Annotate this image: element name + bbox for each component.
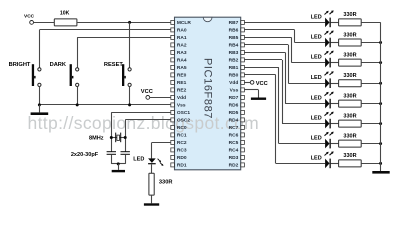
- svg-text:8MHz: 8MHz: [89, 135, 104, 141]
- wire Vss pin31 right: [244, 89, 258, 91]
- LED D8: [325, 151, 334, 168]
- junction: [76, 103, 79, 106]
- svg-text:RC4: RC4: [229, 148, 239, 154]
- svg-text:RC2: RC2: [177, 140, 187, 146]
- svg-text:RC5: RC5: [229, 140, 239, 146]
- wire RB3 down: [285, 52, 287, 103]
- LED D4: [325, 71, 334, 88]
- wire to LED row 4: [288, 83, 325, 85]
- pin 9 RE1 (left stub): [171, 80, 187, 86]
- pin 15 RC0 (left stub): [171, 125, 187, 131]
- svg-text:MCLR: MCLR: [177, 20, 191, 26]
- resistor R2 330R: [339, 39, 362, 46]
- wire Vdd pin32 to VCC: [244, 82, 250, 84]
- LED D1: [325, 10, 334, 27]
- IC U1 PIC16F887 microcontroller body: [175, 17, 241, 170]
- ground (LED rail): [372, 171, 389, 174]
- wire 330R to rail: [361, 42, 380, 44]
- wire RB1 down: [278, 67, 280, 143]
- VCC terminal (Vdd pin11): [146, 96, 150, 100]
- junction crystal left: [110, 136, 113, 139]
- junction: [128, 103, 131, 106]
- svg-text:Vss: Vss: [230, 88, 239, 94]
- junction caps: [117, 162, 120, 165]
- wire RB2 down: [282, 60, 284, 124]
- svg-text:RC0: RC0: [177, 125, 187, 131]
- pin 10 RE2 (left stub): [171, 88, 187, 94]
- svg-text:RE1: RE1: [177, 80, 187, 86]
- pin 12 Vss (left stub): [171, 103, 186, 109]
- svg-text:RD0: RD0: [177, 155, 187, 161]
- svg-text:10K: 10K: [60, 10, 70, 16]
- wire OSC1 left: [111, 112, 171, 114]
- LED D9 (center, pointing down): [148, 158, 163, 166]
- pin 2 RA0 (left stub): [171, 28, 187, 34]
- resistor R1 330R: [339, 19, 362, 26]
- common cathode rail: [380, 22, 382, 171]
- wire BRIGHT to ground rail: [39, 86, 41, 105]
- pin 13 OSC1 (left stub): [171, 110, 191, 116]
- svg-text:330R: 330R: [343, 52, 356, 58]
- wire RB2 right: [244, 59, 282, 61]
- wire: [331, 163, 339, 165]
- wire OSC2 down: [125, 120, 127, 152]
- pin 23 RC4 (right stub): [229, 148, 245, 154]
- pin 5 RA3 (left stub): [171, 50, 187, 56]
- wire OSC2 left: [125, 119, 171, 121]
- wire 330R to ground: [151, 195, 153, 203]
- ground (switch rail): [31, 112, 49, 115]
- svg-text:RD5: RD5: [229, 110, 239, 116]
- resistor R4 330R: [339, 80, 362, 87]
- wire: [331, 103, 339, 105]
- ground (oscillator): [112, 170, 125, 172]
- svg-text:LED: LED: [311, 55, 322, 61]
- wire RB4 right: [244, 44, 288, 46]
- wire C1 down: [111, 155, 113, 164]
- svg-text:RA1: RA1: [177, 35, 187, 41]
- junction rail row 6: [379, 122, 382, 125]
- wire 330R to rail: [361, 143, 380, 145]
- wire RB1 right: [244, 67, 278, 69]
- svg-text:RESET: RESET: [104, 62, 123, 68]
- junction MCLR/RESET node: [128, 21, 131, 24]
- wire LED to 330R: [151, 164, 153, 173]
- pin 37 RB4 (right stub): [229, 43, 245, 49]
- wire caps join: [111, 163, 125, 165]
- pin 7 RA5 (left stub): [171, 65, 187, 71]
- svg-text:RB1: RB1: [229, 65, 239, 71]
- wire down to RESET switch: [129, 22, 131, 68]
- svg-text:PIC16F887: PIC16F887: [202, 58, 214, 119]
- wire Vss down: [258, 90, 260, 98]
- pin 40 RB7 (right stub): [229, 20, 245, 26]
- wire 330R to rail: [361, 163, 380, 165]
- svg-text:330R: 330R: [343, 12, 356, 18]
- svg-text:RC3: RC3: [177, 148, 187, 154]
- pin 30 RD7 (right stub): [229, 95, 245, 101]
- svg-text:VCC: VCC: [141, 89, 153, 95]
- svg-text:LED: LED: [311, 116, 322, 122]
- svg-text:LED: LED: [311, 75, 322, 81]
- wire RB7 to LED row 1: [244, 22, 325, 24]
- wire to LED row 8: [276, 163, 325, 165]
- pin 26 RC7 (right stub): [229, 125, 245, 131]
- pin 35 RB2 (right stub): [229, 58, 245, 64]
- svg-text:LED: LED: [311, 155, 322, 161]
- wire: [331, 42, 339, 44]
- junction crystal right: [124, 136, 127, 139]
- svg-text:2x20-30pF: 2x20-30pF: [71, 152, 99, 158]
- pin 21 RD2 (right stub): [229, 163, 245, 169]
- pin 11 Vdd (left stub): [171, 95, 186, 101]
- pin 3 RA1 (left stub): [171, 35, 187, 41]
- pin 18 RC3 (left stub): [171, 148, 187, 154]
- svg-text:OSC1: OSC1: [177, 110, 190, 116]
- wire: [331, 123, 339, 125]
- ground rail to Vss pin12: [39, 104, 171, 106]
- pushbutton switch DARK: [70, 64, 79, 86]
- pin 33 RB0 (right stub): [229, 73, 245, 79]
- wire to LED row 7: [279, 143, 325, 145]
- svg-text:RB5: RB5: [229, 35, 239, 41]
- wire: [331, 62, 339, 64]
- svg-text:Vdd: Vdd: [229, 80, 238, 86]
- svg-text:BRIGHT: BRIGHT: [9, 62, 31, 68]
- pin 27 RD4 (right stub): [229, 118, 245, 124]
- pin 20 RD1 (left stub): [171, 163, 187, 169]
- wire C2 down: [125, 155, 127, 164]
- pin 17 RC2 (left stub): [171, 140, 187, 146]
- LED D7: [325, 132, 334, 149]
- pin 19 RD0 (left stub): [171, 155, 187, 161]
- svg-text:RB4: RB4: [229, 43, 239, 49]
- svg-text:RC1: RC1: [177, 133, 187, 139]
- pin 34 RB1 (right stub): [229, 65, 245, 71]
- wire: [331, 143, 339, 145]
- pin 22 RD3 (right stub): [229, 155, 245, 161]
- svg-text:RA0: RA0: [177, 28, 187, 34]
- svg-text:RB2: RB2: [229, 58, 239, 64]
- svg-text:RB3: RB3: [229, 50, 239, 56]
- pin 6 RA4 (left stub): [171, 58, 187, 64]
- wire to LED row 6: [282, 123, 325, 125]
- wire RC2 left: [152, 142, 171, 144]
- svg-text:RB0: RB0: [229, 73, 239, 79]
- wire RB6 down: [294, 30, 296, 43]
- pin 36 RB3 (right stub): [229, 50, 245, 56]
- pin 24 RC5 (right stub): [229, 140, 245, 146]
- svg-text:DARK: DARK: [50, 62, 67, 68]
- wire rail to ground: [39, 105, 41, 113]
- wire down to BRIGHT switch: [39, 30, 41, 68]
- resistor R5 330R: [339, 100, 362, 107]
- svg-text:RD7: RD7: [229, 95, 239, 101]
- pin 38 RB5 (right stub): [229, 35, 245, 41]
- svg-text:RD2: RD2: [229, 163, 239, 169]
- svg-text:RD4: RD4: [229, 118, 239, 124]
- resistor R10 330R (vertical): [149, 173, 154, 195]
- svg-text:RA4: RA4: [177, 58, 187, 64]
- junction rail row 4: [379, 82, 382, 85]
- svg-text:RB6: RB6: [229, 28, 239, 34]
- capacitor C2 20-30pF: [121, 151, 130, 155]
- svg-text:RB7: RB7: [229, 20, 239, 26]
- pin 29 RD6 (right stub): [229, 103, 245, 109]
- resistor R8 330R: [339, 160, 362, 167]
- svg-text:VCC: VCC: [256, 81, 268, 87]
- pin 28 RD5 (right stub): [229, 110, 245, 116]
- junction rail row 3: [379, 61, 382, 64]
- svg-text:330R: 330R: [343, 133, 356, 139]
- LED D6: [325, 112, 334, 129]
- wire RB0 down: [275, 75, 277, 163]
- junction rail row 5: [379, 102, 382, 105]
- svg-text:LED: LED: [133, 157, 144, 163]
- pin 14 OSC2 (left stub): [171, 118, 191, 124]
- wire to LED row 3: [291, 62, 325, 64]
- resistor R6 330R: [339, 120, 362, 127]
- junction rail row 2: [379, 41, 382, 44]
- svg-text:RE2: RE2: [177, 88, 187, 94]
- pin 16 RC1 (left stub): [171, 133, 187, 139]
- wire 330R to rail: [361, 62, 380, 64]
- pin 25 RC6 (right stub): [229, 133, 245, 139]
- svg-text:Vdd: Vdd: [177, 95, 186, 101]
- wire 330R to rail: [361, 22, 380, 24]
- svg-text:330R: 330R: [343, 153, 356, 159]
- wire RB0 right: [244, 74, 275, 76]
- wire to LED row 2: [295, 42, 326, 44]
- svg-text:330R: 330R: [343, 93, 356, 99]
- wire VCC to Vdd pin11: [150, 97, 171, 99]
- svg-text:RD6: RD6: [229, 103, 239, 109]
- wire: [331, 83, 339, 85]
- crystal X1 8MHz: [115, 133, 121, 143]
- svg-text:RC7: RC7: [229, 125, 239, 131]
- svg-text:http://scopionz.blogspot.com: http://scopionz.blogspot.com: [28, 113, 260, 133]
- junction rail row 7: [379, 142, 382, 145]
- svg-text:330R: 330R: [343, 32, 356, 38]
- pushbutton switch RESET: [122, 64, 131, 86]
- wire RB5 down: [291, 37, 293, 62]
- VCC terminal (top left): [30, 21, 34, 25]
- wire 10K to MCLR pin1: [77, 22, 171, 24]
- pushbutton switch BRIGHT: [32, 64, 41, 86]
- wire RB3 right: [244, 52, 285, 54]
- ground (center LED): [144, 203, 159, 205]
- junction rail row 8: [379, 162, 382, 165]
- wire to ground: [118, 164, 120, 170]
- wire: [331, 22, 339, 24]
- svg-text:RE0: RE0: [177, 73, 187, 79]
- pin 1 MCLR (left stub): [171, 20, 192, 26]
- svg-text:VCC: VCC: [24, 13, 35, 19]
- svg-text:LED: LED: [311, 14, 322, 20]
- wire down to DARK switch: [77, 37, 79, 68]
- wire RA0 left: [39, 29, 171, 31]
- svg-text:330R: 330R: [159, 180, 173, 186]
- resistor 10K: [54, 19, 77, 26]
- wire to LED row 5: [285, 103, 325, 105]
- svg-text:Vss: Vss: [177, 103, 186, 109]
- resistor R3 330R: [339, 59, 362, 66]
- wire 330R to rail: [361, 123, 380, 125]
- svg-text:RA2: RA2: [177, 43, 187, 49]
- svg-text:RD3: RD3: [229, 155, 239, 161]
- wire RC2 down to LED: [151, 142, 153, 158]
- pin 39 RB6 (right stub): [229, 28, 245, 34]
- wire RESET to ground rail: [129, 86, 131, 105]
- wire OSC1 down: [111, 112, 113, 151]
- svg-text:RA5: RA5: [177, 65, 187, 71]
- wire RB6 right: [244, 29, 294, 31]
- wire RB4 down: [288, 45, 290, 83]
- svg-text:RD1: RD1: [177, 163, 187, 169]
- wire crystal link: [111, 137, 125, 139]
- LED D2: [325, 31, 334, 48]
- wire DARK to ground rail: [77, 86, 79, 105]
- resistor R7 330R: [339, 140, 362, 147]
- wire RB5 right: [244, 37, 291, 39]
- wire VCC to R 10K: [34, 22, 55, 24]
- pin 31 Vss (right stub): [230, 88, 245, 94]
- svg-text:LED: LED: [311, 35, 322, 41]
- ground (Vss right): [251, 98, 266, 100]
- pin 32 Vdd (right stub): [229, 80, 244, 86]
- VCC terminal (right): [250, 81, 254, 85]
- capacitor C1 20-30pF: [107, 151, 116, 155]
- svg-text:330R: 330R: [343, 113, 356, 119]
- LED D5: [325, 92, 334, 109]
- svg-text:RC6: RC6: [229, 133, 239, 139]
- wire 330R to rail: [361, 83, 380, 85]
- pin 4 RA2 (left stub): [171, 43, 187, 49]
- svg-text:330R: 330R: [343, 73, 356, 79]
- svg-text:OSC2: OSC2: [177, 118, 190, 124]
- wire RA1 left: [77, 37, 171, 39]
- svg-text:LED: LED: [311, 96, 322, 102]
- wire 330R to rail: [361, 103, 380, 105]
- LED D3: [325, 51, 334, 68]
- junction: [38, 103, 41, 106]
- pin 8 RE0 (left stub): [171, 73, 187, 79]
- svg-text:LED: LED: [311, 136, 322, 142]
- svg-text:RA3: RA3: [177, 50, 187, 56]
